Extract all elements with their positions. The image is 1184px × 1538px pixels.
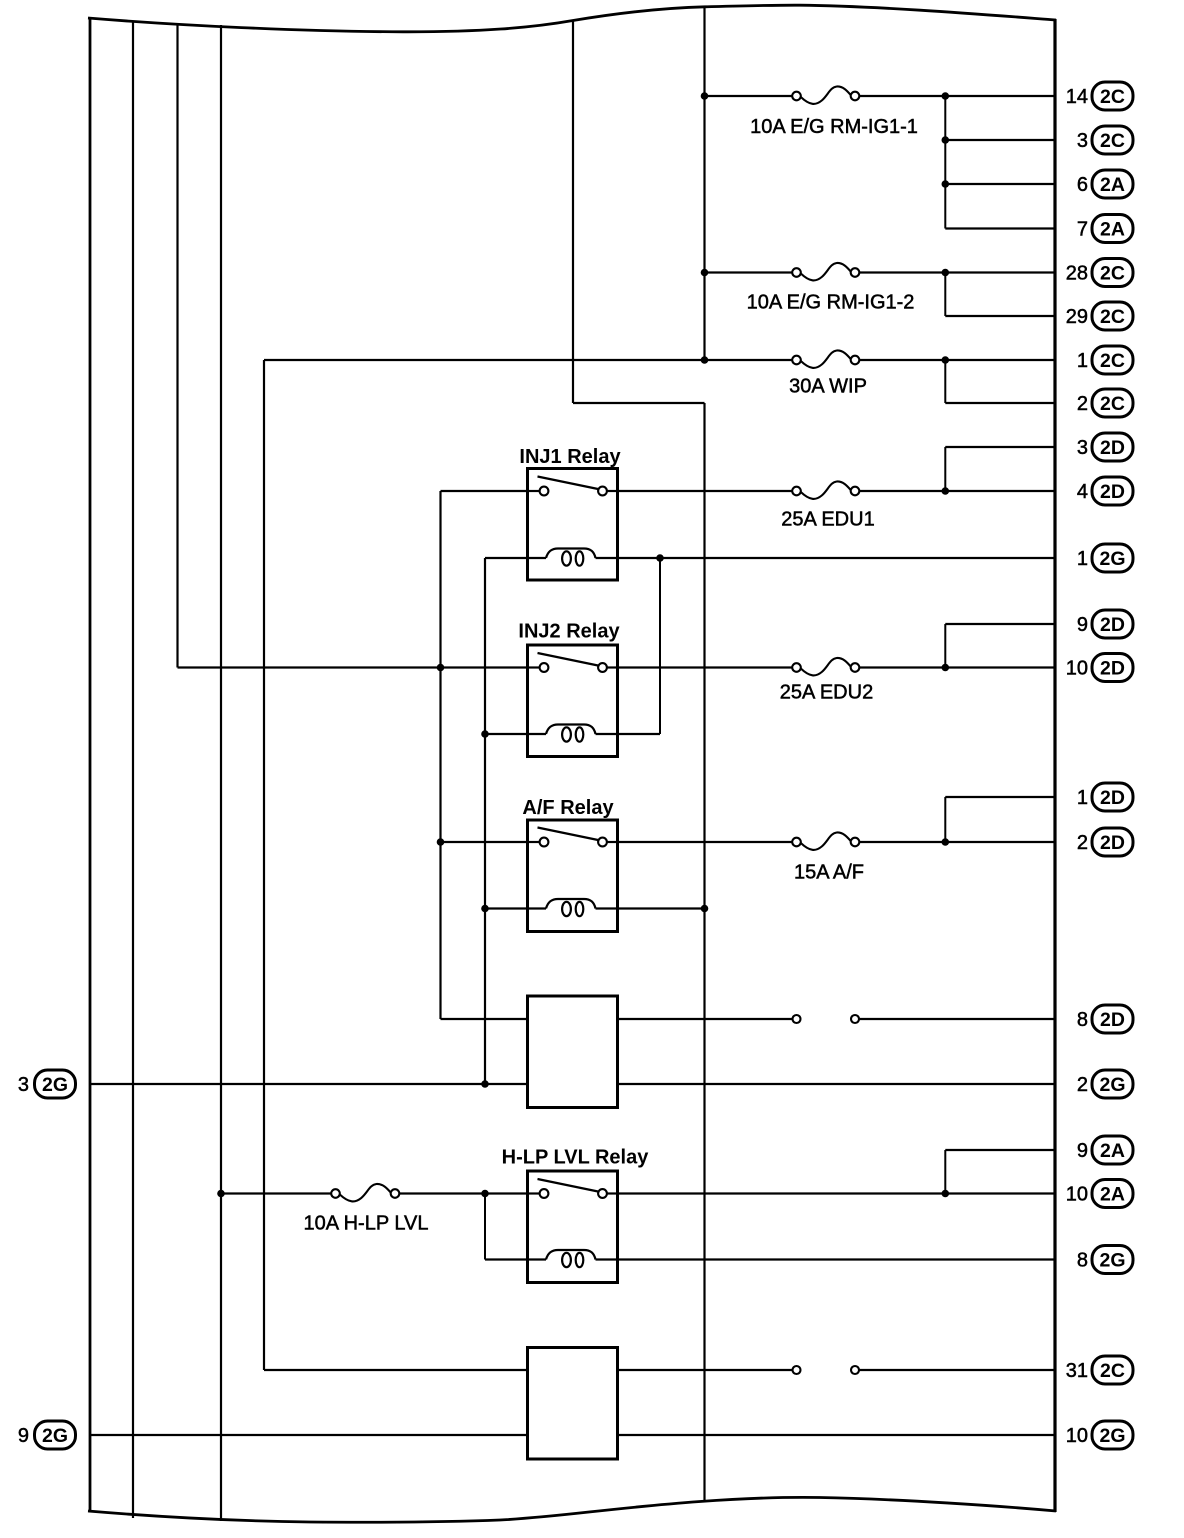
junction branch A/F row: [942, 838, 950, 846]
wire branch vertical 1-2 2D: [944, 797, 946, 842]
wire stub 9 2A: [945, 1149, 1055, 1151]
wire A/F coil to mid bus: [618, 907, 705, 909]
svg-text:2A: 2A: [1100, 1184, 1125, 1206]
wire stub 29 2C: [945, 315, 1055, 317]
relay A/F box: [528, 820, 618, 932]
connector pin 8 2D: [1077, 1005, 1133, 1033]
junction ignition bus row14: [701, 92, 709, 100]
wire box4 switch feed: [441, 1018, 528, 1020]
svg-text:25A EDU1: 25A EDU1: [781, 509, 874, 531]
junction branch row28: [942, 269, 950, 277]
wire fuse row to 14 2C: [705, 95, 1056, 97]
wire A/F coil feed: [485, 907, 528, 909]
wire vertical bus E (WIP to relay 6 feed): [263, 360, 265, 1370]
svg-text:9: 9: [1077, 1140, 1088, 1162]
junction coil branch H-LP: [481, 1190, 489, 1198]
svg-text:2: 2: [1077, 393, 1088, 415]
wire branch vertical 3-4 2D: [944, 447, 946, 491]
svg-text:2A: 2A: [1100, 1140, 1125, 1162]
wire H-LP coil to 8 2G: [618, 1258, 1056, 1260]
wire 8 2D row: [618, 1018, 1056, 1020]
svg-text:INJ2 Relay: INJ2 Relay: [518, 621, 620, 643]
svg-text:H-LP LVL Relay: H-LP LVL Relay: [502, 1147, 650, 1169]
wire EDU2 row right: [618, 666, 1056, 668]
junction ignition bus row28: [701, 269, 709, 277]
wire vertical bus B: [132, 21, 134, 1518]
svg-text:2C: 2C: [1100, 1360, 1125, 1382]
svg-text:2G: 2G: [1099, 1425, 1125, 1447]
connector pin 2 2C: [1077, 389, 1133, 417]
fuse 15A A/F: [792, 832, 859, 849]
svg-text:2D: 2D: [1100, 787, 1125, 809]
svg-text:14: 14: [1066, 86, 1088, 108]
svg-text:25A EDU2: 25A EDU2: [780, 682, 873, 704]
wire stub 7 2A: [945, 227, 1055, 229]
junction bus D H-LP row: [217, 1190, 225, 1198]
wire stub 1 2D: [945, 796, 1055, 798]
junction branch row14: [942, 92, 950, 100]
wire INJ1 coil to 1 2G: [618, 557, 1056, 559]
svg-text:29: 29: [1066, 306, 1088, 328]
junction ignition bus WIP row: [701, 356, 709, 364]
connector pin 3 2G: [18, 1070, 76, 1098]
wire fuse row to 28 2C: [705, 271, 1056, 273]
svg-text:10A E/G RM-IG1-2: 10A E/G RM-IG1-2: [747, 292, 915, 314]
wire relay switch bus: [439, 491, 441, 1019]
svg-text:10: 10: [1066, 1184, 1088, 1206]
wire WIP row: [264, 359, 1055, 361]
connector pin 9 2A: [1077, 1136, 1133, 1164]
relay INJ1 box: [528, 469, 618, 581]
svg-text:2D: 2D: [1100, 437, 1125, 459]
fuse 10A E/G RM-IG1-2: [792, 263, 859, 280]
svg-text:8: 8: [1077, 1009, 1088, 1031]
label INJ2 Relay: [518, 621, 620, 643]
label 10A E/G RM-IG1-2: [747, 292, 915, 314]
svg-text:3: 3: [1077, 437, 1088, 459]
connector pin 10 2D: [1066, 654, 1133, 682]
svg-text:1: 1: [1077, 787, 1088, 809]
wire 3 2G to box4 row: [90, 1083, 528, 1085]
connector pin 31 2C: [1066, 1356, 1133, 1384]
fuse 10A H-LP LVL: [331, 1184, 399, 1201]
wire 9 2G to box5 row: [90, 1434, 528, 1436]
wire vertical ignition feed lower: [703, 403, 705, 1502]
connector pin 1 2C: [1077, 346, 1133, 374]
svg-text:2D: 2D: [1100, 658, 1125, 680]
label 25A EDU1: [781, 509, 874, 531]
wire EDU1 row: [618, 490, 1056, 492]
wire H-LP fuse row: [221, 1192, 528, 1194]
relay H-LP LVL box: [528, 1171, 618, 1283]
svg-text:2D: 2D: [1100, 1009, 1125, 1031]
svg-text:2A: 2A: [1100, 219, 1125, 241]
svg-text:2D: 2D: [1100, 614, 1125, 636]
connector pin 9 2G: [18, 1421, 76, 1449]
junction coil bus INJ2: [481, 730, 489, 738]
svg-text:10A E/G RM-IG1-1: 10A E/G RM-IG1-1: [750, 116, 918, 138]
fuse 25A EDU2: [792, 658, 859, 675]
svg-text:9: 9: [18, 1425, 29, 1447]
junction switch bus A/F: [437, 838, 445, 846]
fuse 30A WIP: [792, 350, 859, 367]
connector pin 2 2G: [1077, 1070, 1133, 1098]
junction coil bus end: [481, 1080, 489, 1088]
wire A/F row right: [618, 841, 1056, 843]
wire box5 to 10 2G: [618, 1434, 1056, 1436]
junction branch EDU1 row: [942, 487, 950, 495]
svg-text:10: 10: [1066, 1425, 1088, 1447]
wire branch vertical 9-10 2A: [944, 1150, 946, 1194]
relay INJ2 switch: [528, 653, 618, 672]
wire stub 6 2A: [945, 183, 1055, 185]
relay INJ2 box: [528, 645, 618, 757]
wire box4 to 2 2G: [618, 1083, 1056, 1085]
junction switch bus EDU2: [437, 664, 445, 672]
svg-text:2C: 2C: [1100, 86, 1125, 108]
connector pin 2 2D: [1077, 828, 1133, 856]
junction coil bus A/F: [481, 905, 489, 913]
svg-text:9: 9: [1077, 614, 1088, 636]
wire stub 3 2C: [945, 139, 1055, 141]
junction branch row3: [942, 136, 950, 144]
connector pin 10 2A: [1066, 1180, 1133, 1208]
relay INJ1 switch: [528, 477, 618, 496]
junction branch row6: [942, 180, 950, 188]
connector pin 1 2D: [1077, 783, 1133, 811]
wire INJ2 coil feed: [485, 733, 528, 735]
svg-text:6: 6: [1077, 174, 1088, 196]
svg-text:2: 2: [1077, 832, 1088, 854]
relay box 4: [528, 996, 618, 1108]
relay A/F switch: [528, 828, 618, 847]
connector pin 7 2A: [1077, 215, 1133, 243]
fuse 25A EDU1: [792, 481, 859, 498]
svg-text:2G: 2G: [42, 1425, 68, 1447]
relay A/F coil: [528, 899, 618, 916]
svg-text:8: 8: [1077, 1250, 1088, 1272]
connector pin 4 2D: [1077, 477, 1133, 505]
label 10A H-LP LVL: [304, 1213, 429, 1235]
label 25A EDU2: [780, 682, 873, 704]
wire H-LP coil branch: [485, 1194, 528, 1260]
wire vertical bus C: [176, 23, 178, 668]
label A/F Relay: [522, 797, 614, 819]
wire vertical bus D: [220, 25, 222, 1521]
svg-text:2G: 2G: [1099, 548, 1125, 570]
svg-text:28: 28: [1066, 263, 1088, 285]
junction branch 10 2A row: [942, 1190, 950, 1198]
junction block top tear edge: [88, 5, 1056, 32]
relay H-LP LVL switch: [528, 1179, 618, 1198]
svg-text:7: 7: [1077, 219, 1088, 241]
connector pin 6 2A: [1077, 170, 1133, 198]
svg-text:3: 3: [18, 1074, 29, 1096]
wire vertical jog feed: [573, 21, 705, 403]
label 10A E/G RM-IG1-1: [750, 116, 918, 138]
junction block left edge: [89, 17, 92, 1512]
junction block right edge: [1053, 19, 1056, 1512]
wire A/F switch feed: [441, 841, 528, 843]
connector pin 14 2C: [1066, 82, 1133, 110]
junction block bottom tear edge: [88, 1497, 1056, 1522]
wire INJ2 coil connect: [618, 733, 661, 735]
svg-text:31: 31: [1066, 1360, 1088, 1382]
svg-text:10A H-LP LVL: 10A H-LP LVL: [304, 1213, 429, 1235]
svg-text:2G: 2G: [42, 1074, 68, 1096]
connector pin 28 2C: [1066, 259, 1133, 287]
svg-text:2G: 2G: [1099, 1074, 1125, 1096]
svg-text:2D: 2D: [1100, 832, 1125, 854]
connector pin 1 2G: [1077, 544, 1133, 572]
connector pin 10 2G: [1066, 1421, 1133, 1449]
wire 10 2A row: [618, 1192, 1056, 1194]
connector pin 8 2G: [1077, 1246, 1133, 1274]
wire coil connect vertical: [659, 558, 661, 734]
wire stub 2 2C: [945, 402, 1055, 404]
svg-text:15A A/F: 15A A/F: [794, 862, 864, 884]
wire stub 3 2D: [945, 446, 1055, 448]
junction branch EDU2 row: [942, 664, 950, 672]
wire 31 2C row: [618, 1369, 1056, 1371]
junction mid bus A/F coil: [701, 905, 709, 913]
wire branch vertical 28-29: [944, 273, 946, 317]
wire branch vertical 1-2 2C: [944, 360, 946, 403]
svg-text:2C: 2C: [1100, 393, 1125, 415]
svg-text:2C: 2C: [1100, 263, 1125, 285]
svg-text:2D: 2D: [1100, 481, 1125, 503]
wire EDU2 row left: [178, 666, 528, 668]
label INJ1 Relay: [519, 446, 621, 468]
wire relay coil bus: [484, 558, 486, 1084]
wire INJ1 switch feed: [441, 490, 528, 492]
junction coil connect: [656, 554, 664, 562]
wire stub 9 2D: [945, 623, 1055, 625]
svg-text:1: 1: [1077, 350, 1088, 372]
svg-text:2G: 2G: [1099, 1250, 1125, 1272]
relay INJ2 coil: [528, 725, 618, 742]
svg-text:3: 3: [1077, 130, 1088, 152]
connector pin 3 2C: [1077, 126, 1133, 154]
svg-text:INJ1 Relay: INJ1 Relay: [519, 446, 621, 468]
wire box5 switch feed: [264, 1369, 528, 1371]
svg-text:30A WIP: 30A WIP: [789, 376, 867, 398]
svg-text:2C: 2C: [1100, 306, 1125, 328]
connector gap 31 2C: [793, 1366, 860, 1374]
connector pin 9 2D: [1077, 610, 1133, 638]
wire branch vertical 9-10 2D: [944, 624, 946, 668]
svg-text:2A: 2A: [1100, 174, 1125, 196]
connector pin 29 2C: [1066, 302, 1133, 330]
svg-text:10: 10: [1066, 658, 1088, 680]
svg-text:A/F Relay: A/F Relay: [522, 797, 614, 819]
fuse 10A E/G RM-IG1-1: [792, 86, 859, 103]
label 15A A/F: [794, 862, 864, 884]
label H-LP LVL Relay: [502, 1147, 650, 1169]
svg-text:2C: 2C: [1100, 130, 1125, 152]
svg-text:1: 1: [1077, 548, 1088, 570]
connector gap 8 2D: [793, 1015, 860, 1023]
junction branch WIP row: [942, 356, 950, 364]
relay INJ1 coil: [528, 549, 618, 566]
label 30A WIP: [789, 376, 867, 398]
wire vertical ignition feed upper: [703, 7, 705, 360]
svg-text:2: 2: [1077, 1074, 1088, 1096]
svg-text:2C: 2C: [1100, 350, 1125, 372]
svg-text:4: 4: [1077, 481, 1088, 503]
relay H-LP LVL coil: [528, 1250, 618, 1267]
wire branch vertical 14-7: [944, 96, 946, 229]
connector pin 3 2D: [1077, 433, 1133, 461]
relay box 5: [528, 1348, 618, 1460]
wire INJ1 coil feed: [485, 557, 528, 559]
